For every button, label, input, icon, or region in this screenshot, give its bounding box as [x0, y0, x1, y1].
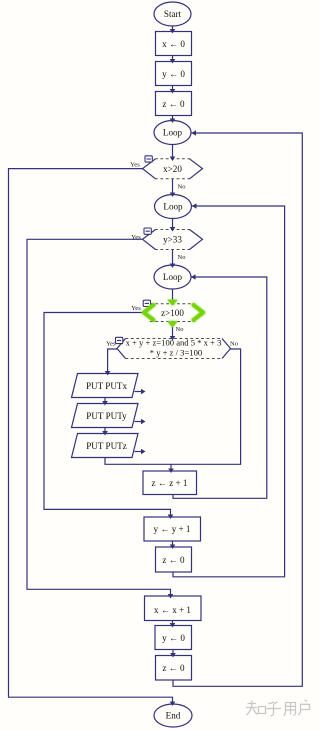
green selection arrows top/bottom of z>100	[167, 300, 177, 327]
svg-text:y ← 0: y ← 0	[162, 69, 185, 79]
arrow into Loop2	[170, 193, 176, 198]
svg-text:Yes: Yes	[131, 305, 141, 312]
svg-text:Loop: Loop	[163, 202, 183, 212]
arrow into hexagon y>33	[170, 227, 176, 232]
arrow into PUT PUTz	[102, 431, 108, 436]
wire Loop2 to hexagon y>33	[172, 219, 174, 230]
wire	[104, 428, 106, 434]
wire No of x>20 to Loop2	[172, 179, 174, 195]
arrow into PUT PUTx	[105, 371, 111, 376]
hexagon z>100 dashed top/bottom	[150, 303, 195, 305]
svg-text:x ← x + 1: x ← x + 1	[154, 605, 191, 615]
arrow into x:=0	[170, 29, 176, 34]
box z:=0	[156, 92, 192, 116]
hexagon y>33 sides	[143, 230, 156, 250]
arrow into z:=0	[170, 89, 176, 94]
wire	[172, 56, 174, 63]
wire join to z:=z+1	[170, 464, 172, 470]
char zhi	[246, 701, 258, 716]
svg-text:z>100: z>100	[161, 308, 184, 318]
parallelogram PUT PUTx	[72, 374, 139, 398]
arrow into z:=0 second	[170, 545, 176, 550]
arrow into hexagon x>20	[170, 157, 176, 162]
arrow into End	[170, 702, 176, 707]
wire No of y>33 to Loop3	[172, 250, 174, 267]
svg-text:Yes: Yes	[106, 341, 116, 348]
hexagon x>20 dashed top/bottom	[155, 158, 190, 160]
char hu	[267, 702, 282, 716]
arrowhead output PUT PUTz	[141, 449, 146, 455]
wire	[172, 86, 174, 93]
wire	[172, 650, 174, 657]
parallelogram PUT PUTz	[72, 434, 139, 458]
hexagon x>20 sides	[143, 159, 156, 179]
arrow into Loop3 right side	[191, 274, 196, 280]
svg-text:* y + z / 3=100: * y + z / 3=100	[150, 347, 202, 357]
wire Loop3 to hexagon z>100	[172, 289, 174, 303]
arrow into big condition	[170, 336, 176, 341]
svg-text:PUT PUTz: PUT PUTz	[86, 441, 127, 451]
wire No of z>100 to big condition	[172, 322, 174, 339]
arrowhead output PUT PUTy	[141, 419, 146, 425]
wire Loop1 to hexagon x>20	[172, 145, 174, 159]
wire Yes branch of y>33 to x:=x+1	[27, 239, 171, 595]
svg-text:y>33: y>33	[163, 235, 182, 245]
svg-text:Start: Start	[164, 9, 182, 19]
arrow into PUT PUTy	[102, 401, 108, 406]
arrow into y:=0 second	[170, 623, 176, 628]
box z:=z+1	[143, 471, 197, 495]
hexagon y>33 dashed top/bottom	[155, 229, 190, 231]
wire Yes branch of x>20 to End	[9, 169, 173, 703]
big hexagon sides	[117, 339, 126, 359]
arrow into z:=0 third	[170, 653, 176, 658]
svg-text:x>20: x>20	[163, 164, 182, 174]
box y:=0	[156, 62, 192, 86]
oval Loop1	[154, 121, 191, 145]
arrow into y:=y+1	[168, 515, 174, 520]
svg-text:x ← 0: x ← 0	[162, 39, 185, 49]
char hu2	[298, 700, 309, 716]
svg-text:z ← 0: z ← 0	[162, 555, 185, 565]
arrow into Loop3	[170, 264, 176, 269]
svg-text:Yes: Yes	[130, 162, 140, 169]
arrow into Loop1 right side	[192, 130, 197, 136]
svg-text:No: No	[230, 341, 238, 348]
box x:=0	[156, 32, 192, 56]
big hexagon dashed top/bottom	[126, 338, 223, 340]
box y:=0 second	[155, 626, 192, 650]
svg-text:z ← z + 1: z ← z + 1	[152, 478, 188, 488]
arrow into Loop1	[170, 119, 176, 124]
wire Loop2 return	[173, 206, 285, 577]
svg-text:z ← 0: z ← 0	[162, 663, 185, 673]
svg-text:PUT PUTy: PUT PUTy	[86, 411, 127, 421]
watermark zhihu user	[246, 700, 310, 716]
box z:=0 second	[156, 547, 192, 572]
oval End	[154, 704, 192, 727]
arrow into y:=0	[170, 59, 176, 64]
collapse icon big condition	[116, 337, 123, 343]
arrowheads (entries)	[102, 29, 196, 706]
wire Yes branch of z>100 to y:=y+1	[44, 313, 171, 518]
arrowhead output PUT PUTx	[141, 389, 146, 395]
svg-text:y ← y + 1: y ← y + 1	[154, 524, 191, 534]
collapse icon hexagon x>20	[145, 156, 152, 162]
wire No branch of big condition	[105, 349, 241, 464]
wire	[172, 541, 174, 547]
output arrow PUT PUTy	[135, 421, 143, 423]
svg-text:PUT PUTx: PUT PUTx	[86, 381, 127, 391]
wire	[172, 116, 174, 122]
output arrow PUT PUTx	[135, 391, 143, 393]
svg-text:No: No	[176, 326, 184, 333]
char yong	[284, 703, 296, 716]
svg-text:Loop: Loop	[163, 272, 183, 282]
collapse icon hexagon z>100	[143, 300, 150, 306]
wire Start to x:=0	[172, 26, 174, 32]
svg-text:z ← 0: z ← 0	[162, 99, 185, 109]
arrow into x:=x+1	[168, 594, 174, 599]
box z:=0 third	[156, 656, 192, 681]
box x:=x+1	[145, 596, 202, 621]
svg-text:y ← 0: y ← 0	[162, 633, 185, 643]
dashed edges of hexagons	[126, 159, 223, 359]
wire Yes branch of big condition to PUT PUTx	[108, 349, 117, 373]
svg-text:x + y + z=100 and 5 * x + 3: x + y + z=100 and 5 * x + 3	[126, 337, 222, 347]
oval Loop2	[155, 195, 192, 219]
arrow into z:=z+1	[168, 469, 174, 474]
oval Start	[154, 2, 191, 26]
svg-text:End: End	[166, 711, 181, 721]
oval Loop3	[154, 265, 191, 289]
output arrow PUT PUTz	[135, 451, 143, 453]
parallelogram PUT PUTy	[72, 404, 139, 428]
collapse icon hexagon y>33	[144, 228, 151, 234]
svg-text:Loop: Loop	[163, 128, 183, 138]
svg-text:No: No	[178, 254, 186, 261]
wire Loop3 return	[173, 277, 267, 498]
wire Loop1 return from bottom right	[173, 133, 302, 686]
svg-text:No: No	[178, 184, 186, 191]
green selection chevrons on z>100	[144, 305, 203, 320]
wire	[172, 621, 174, 627]
wire	[104, 398, 106, 404]
svg-text:Yes: Yes	[131, 234, 141, 241]
box y:=y+1	[144, 517, 201, 541]
arrow into Loop2 right side	[192, 203, 197, 209]
